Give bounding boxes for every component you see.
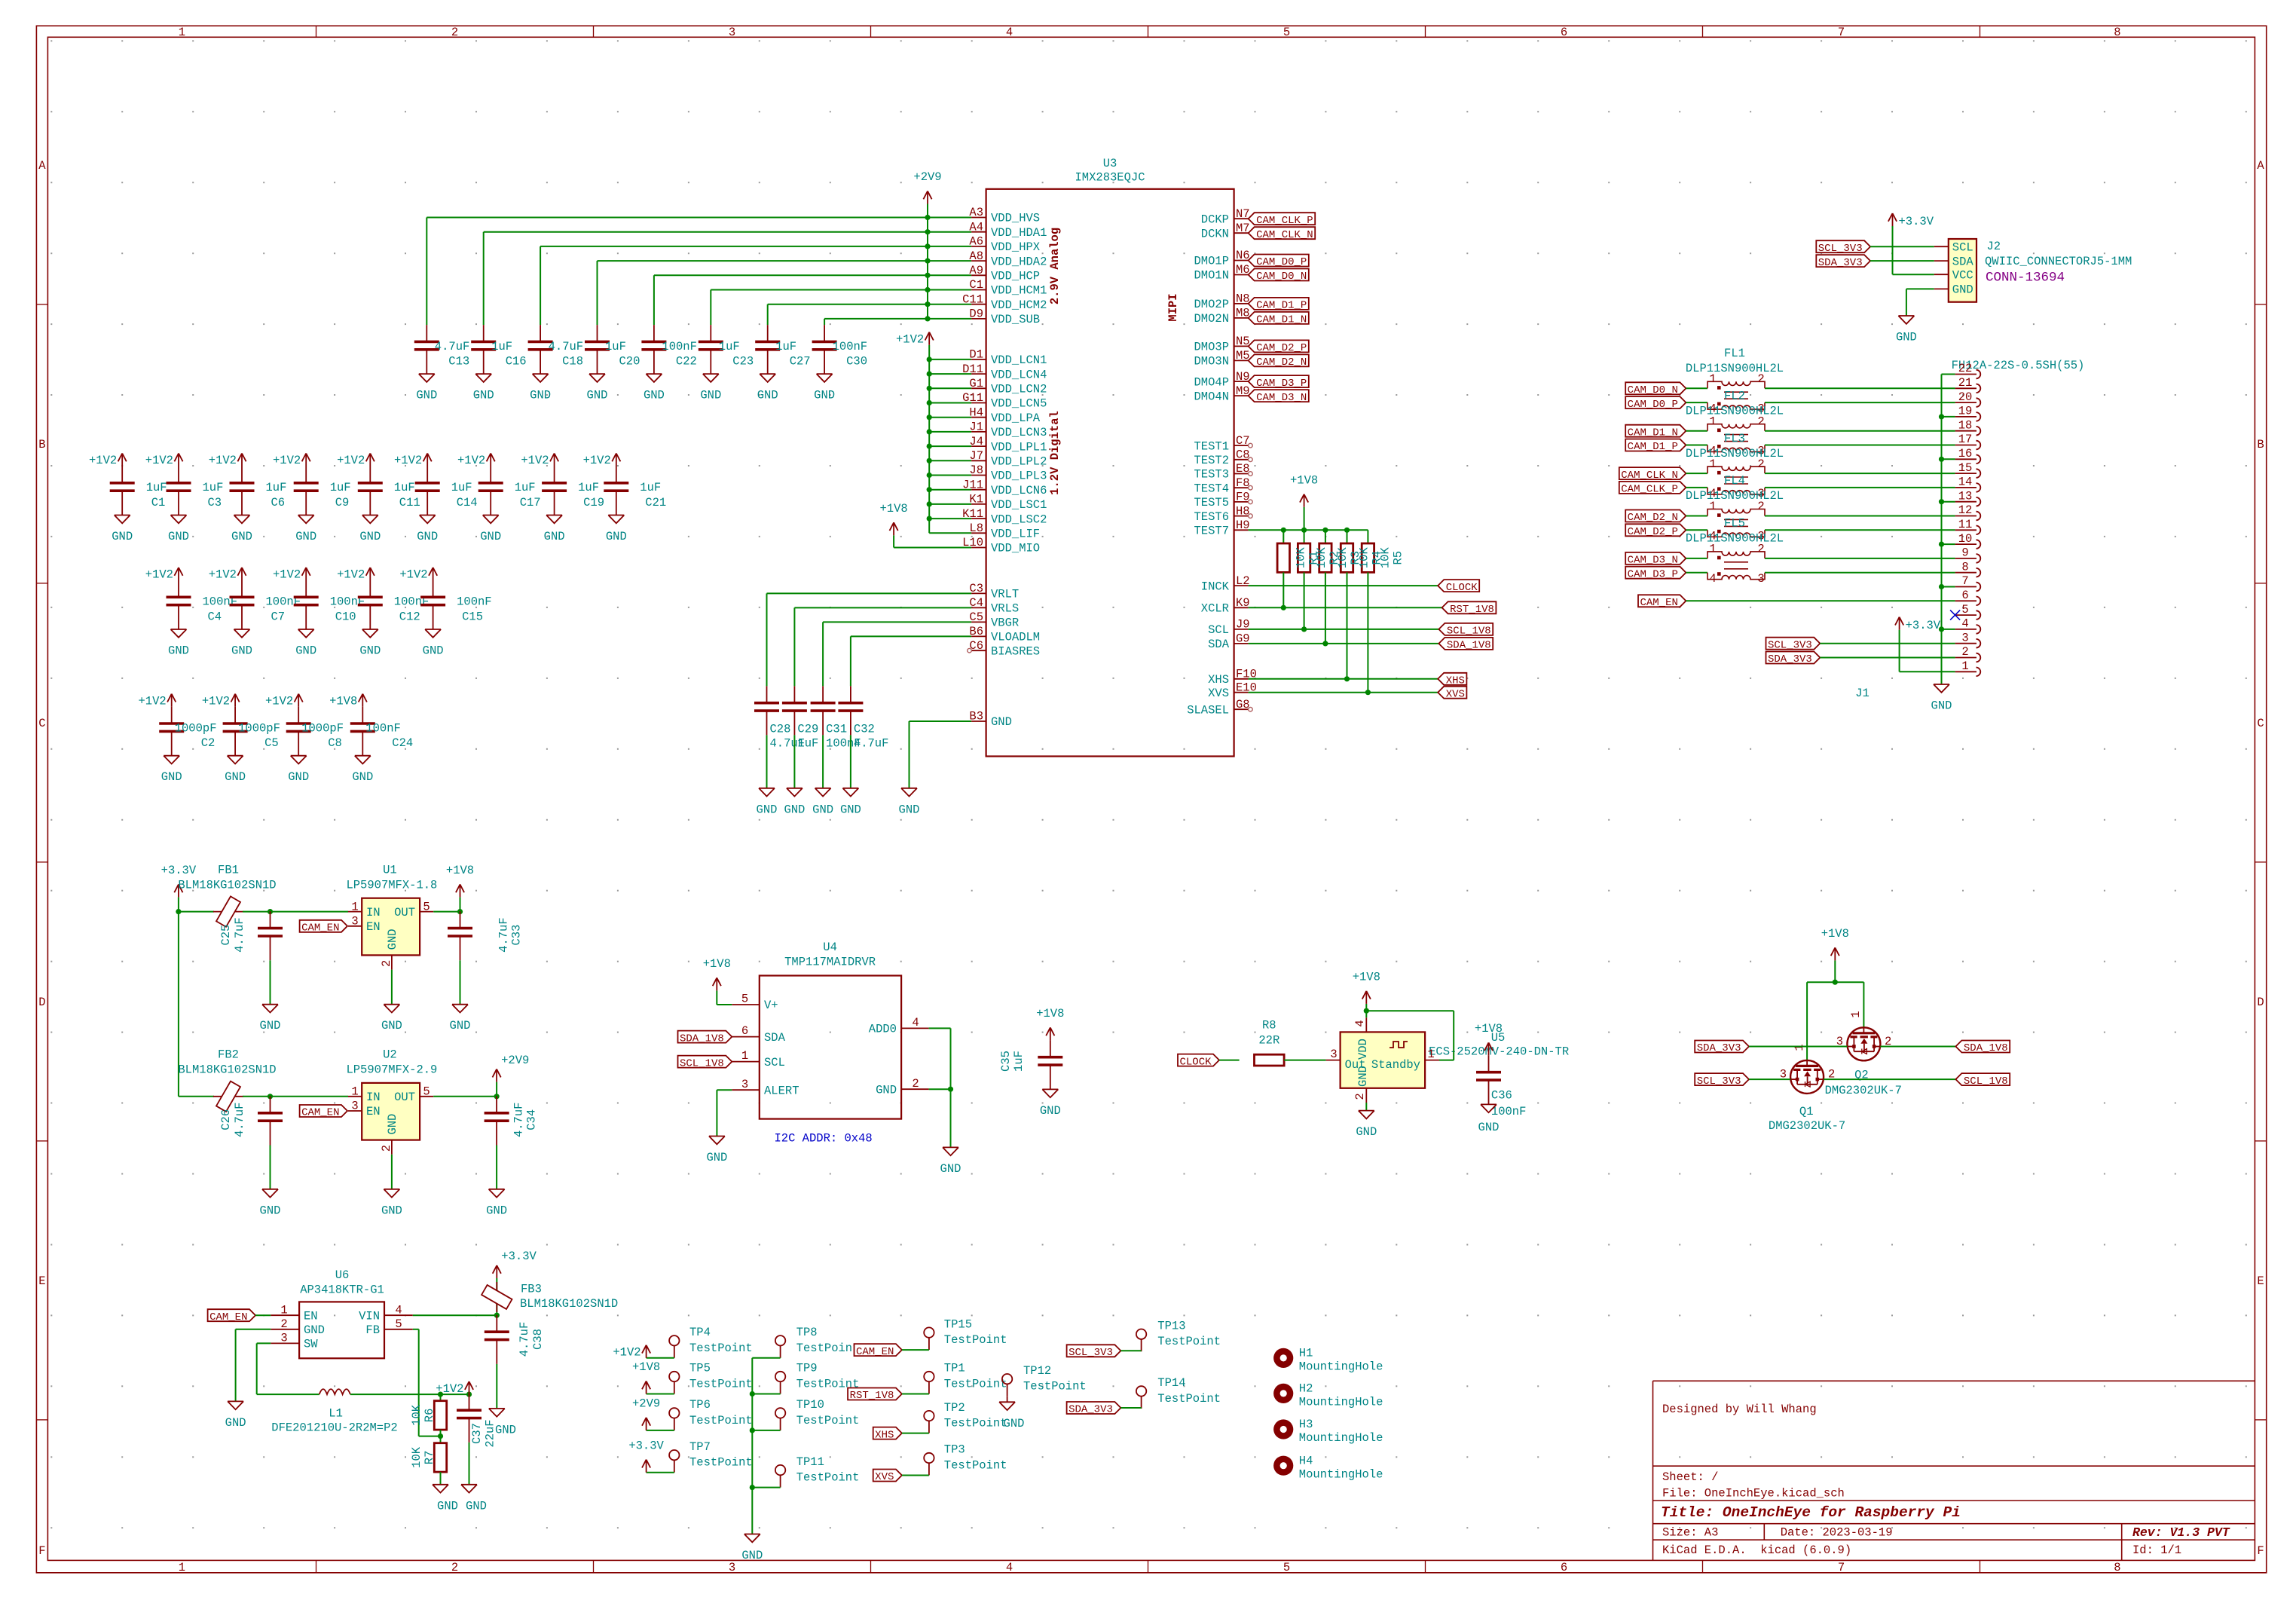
- resistor R8 22R: [1255, 1019, 1285, 1066]
- svg-text:B3: B3: [969, 710, 983, 724]
- svg-text:C5: C5: [969, 610, 983, 624]
- svg-text:100nF: 100nF: [1491, 1105, 1527, 1118]
- svg-text:6: 6: [1561, 26, 1567, 39]
- svg-text:C30: C30: [846, 354, 867, 368]
- wire U3 to C29: [794, 607, 971, 686]
- svg-text:1.2V Digital: 1.2V Digital: [1048, 411, 1062, 495]
- svg-text:+1V2: +1V2: [202, 694, 230, 708]
- test point TP7: [669, 1440, 753, 1473]
- svg-text:TestPoint: TestPoint: [1157, 1335, 1221, 1348]
- wire R2 to net: [1301, 572, 1307, 632]
- wire U3 GND B3 to ground: [910, 721, 972, 788]
- global label SDA_1V8 at U4: [678, 1031, 732, 1045]
- ground below C29: [784, 788, 805, 817]
- ground U4 GND: [940, 1147, 962, 1176]
- svg-text:GND: GND: [168, 644, 189, 658]
- svg-text:GND: GND: [161, 770, 182, 784]
- svg-text:VCC: VCC: [1952, 268, 1973, 282]
- svg-text:+1V2: +1V2: [337, 454, 365, 467]
- svg-text:4: 4: [1709, 572, 1716, 586]
- svg-text:10K: 10K: [1358, 547, 1371, 569]
- wire TP10 to gnd bus: [752, 1430, 780, 1431]
- wire C33 to ground: [460, 960, 461, 1004]
- global label CAM_EN at J1: [1638, 595, 1686, 609]
- svg-text:C33: C33: [510, 925, 524, 946]
- power +1V2 for C10: [273, 568, 310, 582]
- labels for resistor R5: [1379, 547, 1405, 569]
- ground TP bus: [741, 1534, 763, 1563]
- svg-text:H9: H9: [1236, 519, 1250, 532]
- svg-text:GND: GND: [544, 530, 565, 543]
- svg-text:F: F: [2257, 1544, 2264, 1558]
- test point TP14: [1136, 1376, 1221, 1409]
- ground below C21: [606, 516, 627, 544]
- U3 pin D9 VDD_SUB: [969, 307, 1040, 327]
- wire SCL_3V3 to TP13: [1120, 1350, 1141, 1351]
- svg-text:K1: K1: [969, 493, 983, 506]
- U6 pin 2 GND: [271, 1317, 325, 1337]
- svg-text:+3.3V: +3.3V: [501, 1250, 537, 1263]
- svg-text:SCL_1V8: SCL_1V8: [1447, 626, 1491, 638]
- svg-text:MountingHole: MountingHole: [1299, 1396, 1383, 1409]
- svg-text:D: D: [38, 996, 45, 1009]
- svg-text:Title: OneInchEye for Raspberr: Title: OneInchEye for Raspberry Pi: [1661, 1504, 1961, 1521]
- wire +3.3V to J1 pin 1: [1900, 630, 1955, 672]
- svg-text:+3.3V: +3.3V: [1906, 619, 1941, 632]
- svg-text:J1: J1: [969, 421, 983, 434]
- svg-text:FB2: FB2: [218, 1048, 239, 1062]
- ground below C31: [812, 788, 833, 817]
- ground below C22: [644, 374, 665, 402]
- svg-text:DLP11SN900HL2L: DLP11SN900HL2L: [1686, 362, 1784, 375]
- global label SDA_3V3 at TP14: [1067, 1402, 1121, 1416]
- U3 pin G1 VDD_LCN2: [969, 377, 1047, 396]
- svg-text:8: 8: [1961, 560, 1968, 574]
- global label CLOCK: [1438, 580, 1479, 594]
- power +1V2 for C17: [457, 454, 495, 468]
- U4 pin 5 V+: [732, 993, 778, 1013]
- svg-text:+1V2: +1V2: [273, 568, 301, 582]
- U3 pin J1 VDD_LCN3: [969, 421, 1047, 440]
- J1 pin 18: [1955, 418, 1981, 435]
- capacitor C13: [414, 325, 470, 374]
- svg-text:C11: C11: [399, 496, 420, 509]
- svg-text:SDA_1V8: SDA_1V8: [1447, 640, 1491, 652]
- svg-text:CAM_D0_N: CAM_D0_N: [1256, 271, 1307, 283]
- svg-text:VDD_HCP: VDD_HCP: [991, 270, 1040, 283]
- svg-text:L2: L2: [1236, 574, 1250, 588]
- svg-text:+1V2: +1V2: [337, 568, 365, 582]
- svg-text:GND: GND: [112, 530, 133, 543]
- power +1V8 at TP5: [632, 1360, 660, 1394]
- test point TP5: [669, 1362, 753, 1394]
- svg-text:MountingHole: MountingHole: [1299, 1431, 1383, 1445]
- svg-text:4: 4: [395, 1303, 402, 1317]
- svg-text:TEST1: TEST1: [1194, 439, 1229, 453]
- svg-text:GND: GND: [899, 803, 920, 816]
- power +1V2 for C19: [521, 454, 558, 468]
- U3 pin G9 SDA: [1208, 632, 1250, 652]
- ground below C33: [450, 1005, 471, 1033]
- svg-text:10K: 10K: [1315, 547, 1328, 569]
- svg-text:C13: C13: [448, 354, 469, 368]
- wire U5 Standby loop to VDD: [1364, 1008, 1454, 1060]
- svg-text:C23: C23: [732, 354, 754, 368]
- wire TP7 to power: [647, 1472, 674, 1473]
- power +1V2 for C3: [145, 454, 183, 468]
- ground below C38: [489, 1409, 516, 1437]
- global label CAM_D3_N: [1625, 552, 1686, 567]
- ground below C35: [1040, 1089, 1061, 1118]
- svg-text:GND: GND: [416, 389, 437, 402]
- wire C32 to ground: [850, 735, 851, 788]
- svg-text:C27: C27: [790, 354, 811, 368]
- no-connect J1 pin 5: [1950, 610, 1960, 620]
- svg-text:6: 6: [1961, 589, 1968, 602]
- U3 pin E10 XVS: [1208, 681, 1257, 700]
- svg-text:SCL_3V3: SCL_3V3: [1818, 243, 1863, 255]
- resistor R2 10K: [1298, 543, 1310, 572]
- wire FL3 to J1 pin 15: [1765, 473, 1955, 474]
- IC U2 LP5907MFX-2.9: [346, 1048, 437, 1155]
- svg-text:EN: EN: [304, 1309, 318, 1323]
- U3 pin C4 VRLS: [969, 596, 1019, 616]
- wire XHS: [1249, 678, 1438, 680]
- svg-text:GND: GND: [480, 530, 501, 543]
- svg-text:1uF: 1uF: [330, 481, 351, 494]
- svg-text:C8: C8: [1236, 448, 1250, 462]
- svg-text:C1: C1: [969, 278, 983, 292]
- U3 pin B6 VLOADLM: [969, 625, 1040, 644]
- U3 pin M5 DMO3N: [1194, 349, 1249, 369]
- svg-text:1: 1: [1427, 1048, 1434, 1061]
- power +1V2 for C12: [337, 568, 375, 582]
- svg-text:GND: GND: [225, 770, 246, 784]
- svg-text:3: 3: [1961, 631, 1968, 644]
- svg-text:DMO2P: DMO2P: [1194, 298, 1229, 311]
- capacitor C10: [294, 580, 365, 629]
- svg-text:C25: C25: [219, 925, 233, 946]
- J1 pin 12: [1955, 503, 1981, 520]
- wire C30 to U3: [824, 319, 971, 325]
- svg-text:VLOADLM: VLOADLM: [991, 631, 1040, 644]
- labels for resistor R1: [1295, 547, 1321, 569]
- svg-text:U1: U1: [383, 863, 397, 877]
- svg-text:+3.3V: +3.3V: [628, 1439, 664, 1452]
- svg-text:1: 1: [1849, 1011, 1863, 1017]
- svg-text:C7: C7: [1236, 434, 1250, 448]
- svg-text:B: B: [2257, 438, 2264, 451]
- svg-text:VRLS: VRLS: [991, 602, 1019, 616]
- svg-text:+1V2: +1V2: [145, 568, 173, 582]
- svg-text:VDD_HDA2: VDD_HDA2: [991, 255, 1047, 268]
- test point TP8: [775, 1326, 860, 1358]
- U4 pin 1 SCL: [732, 1049, 785, 1069]
- svg-text:B: B: [38, 438, 45, 451]
- svg-text:1: 1: [1961, 659, 1968, 673]
- wire CAM_EN to TP15: [902, 1349, 929, 1351]
- svg-text:RST_1V8: RST_1V8: [1450, 604, 1494, 616]
- svg-text:GND: GND: [1952, 283, 1973, 297]
- svg-text:5: 5: [423, 900, 430, 913]
- svg-text:DMO1P: DMO1P: [1194, 255, 1229, 268]
- filter FL3 DLP11SN900HL2L: [1686, 432, 1784, 500]
- svg-text:TestPoint: TestPoint: [944, 1333, 1007, 1347]
- svg-text:5: 5: [1961, 603, 1968, 616]
- svg-text:TEST3: TEST3: [1194, 468, 1229, 482]
- svg-text:C: C: [38, 717, 45, 730]
- svg-text:VDD_HCM2: VDD_HCM2: [991, 298, 1047, 312]
- global label CAM_D0_P: [1249, 255, 1309, 269]
- wire C13 to U3: [426, 218, 971, 326]
- resistor R7 10K: [410, 1443, 447, 1472]
- global label CAM_D0_N: [1249, 269, 1309, 283]
- global label CAM_D1_N: [1249, 312, 1309, 326]
- global label CAM_CLK_P: [1249, 213, 1316, 227]
- power +1V8 at C36: [1475, 1022, 1503, 1055]
- svg-text:D1: D1: [969, 348, 983, 362]
- svg-text:GND: GND: [437, 1499, 458, 1513]
- svg-text:1uF: 1uF: [266, 481, 287, 494]
- J2 pin GND: [1934, 283, 1973, 297]
- capacitor C26 4.7uF: [219, 1097, 283, 1146]
- labels for resistor R2: [1315, 547, 1341, 569]
- wire CAM_EN to J1 pin 6: [1686, 600, 1955, 601]
- wire FL1 to J1 pin 20: [1765, 402, 1955, 403]
- svg-text:H4: H4: [1299, 1454, 1313, 1467]
- global label CLOCK at R8: [1178, 1054, 1219, 1069]
- svg-text:10K: 10K: [1336, 547, 1350, 569]
- wire C23 to U3: [711, 290, 971, 326]
- svg-text:TP8: TP8: [796, 1326, 818, 1339]
- svg-text:GND: GND: [304, 1323, 325, 1337]
- wire U1 GND to ground: [391, 970, 393, 1005]
- svg-text:GND: GND: [700, 389, 721, 402]
- svg-text:FB3: FB3: [521, 1283, 542, 1296]
- svg-text:VDD_HDA1: VDD_HDA1: [991, 226, 1047, 240]
- wire R7 to ground: [440, 1472, 442, 1485]
- ground below C10: [295, 629, 316, 658]
- svg-text:+3.3V: +3.3V: [1899, 215, 1934, 228]
- svg-text:VDD_LPL2: VDD_LPL2: [991, 455, 1047, 469]
- power +1V8 pullup rail: [1304, 507, 1305, 531]
- ground below C8: [288, 756, 309, 784]
- svg-text:J9: J9: [1236, 618, 1250, 632]
- svg-text:XVS: XVS: [1208, 687, 1229, 700]
- svg-text:SCL: SCL: [764, 1056, 785, 1069]
- svg-text:GND: GND: [417, 530, 438, 543]
- power +3.3V at J2: [1888, 213, 1934, 228]
- svg-text:TestPoint: TestPoint: [796, 1471, 860, 1485]
- svg-text:SDA_3V3: SDA_3V3: [1697, 1042, 1741, 1054]
- capacitor C22: [641, 325, 697, 374]
- svg-text:LP5907MFX-2.9: LP5907MFX-2.9: [346, 1063, 437, 1077]
- svg-text:22: 22: [1958, 362, 1973, 375]
- svg-text:XHS: XHS: [1208, 673, 1229, 687]
- svg-text:F8: F8: [1236, 476, 1250, 490]
- svg-text:+1V2: +1V2: [265, 694, 293, 708]
- svg-text:2: 2: [912, 1077, 919, 1091]
- capacitor C5: [223, 707, 280, 756]
- svg-text:TEST5: TEST5: [1194, 496, 1229, 509]
- U3 pin D11 VDD_LCN4: [962, 363, 1047, 382]
- svg-text:C5: C5: [264, 736, 279, 750]
- svg-text:TestPoint: TestPoint: [944, 1417, 1007, 1430]
- global label SCL_3V3 at TP13: [1067, 1345, 1121, 1359]
- svg-text:C37: C37: [470, 1423, 484, 1444]
- wire XVS: [1249, 692, 1438, 693]
- U3 pin A9 VDD_HCP: [969, 264, 1040, 283]
- svg-text:1uF: 1uF: [797, 737, 818, 751]
- svg-text:R7: R7: [423, 1451, 436, 1465]
- power +1V8 at C35: [1036, 1007, 1064, 1040]
- svg-text:DLP11SN900HL2L: DLP11SN900HL2L: [1686, 404, 1784, 418]
- J1 pin 13: [1955, 489, 1981, 506]
- svg-text:XCLR: XCLR: [1201, 602, 1229, 616]
- svg-text:SW: SW: [304, 1338, 318, 1351]
- wire CAM_D1_P to FL2: [1686, 445, 1707, 446]
- svg-text:DLP11SN900HL2L: DLP11SN900HL2L: [1686, 489, 1784, 503]
- svg-text:SDA_1V8: SDA_1V8: [1964, 1042, 2008, 1054]
- global label CAM_D3_P: [1625, 567, 1686, 581]
- capacitor C9: [294, 467, 351, 516]
- capacitor C24: [350, 707, 413, 756]
- svg-text:2.9V Analog: 2.9V Analog: [1048, 228, 1062, 304]
- svg-text:GND: GND: [359, 644, 381, 658]
- svg-text:SDA_1V8: SDA_1V8: [680, 1033, 724, 1045]
- global label CAM_D1_P: [1625, 439, 1686, 454]
- svg-text:L8: L8: [969, 522, 983, 535]
- svg-text:GND: GND: [381, 1019, 402, 1033]
- global label CAM_D3_P: [1249, 375, 1309, 390]
- global label XHS: [1438, 673, 1466, 687]
- svg-text:C26: C26: [219, 1109, 233, 1130]
- svg-text:MountingHole: MountingHole: [1299, 1360, 1383, 1374]
- svg-text:B6: B6: [969, 625, 983, 638]
- U3 pin E8 TEST3: [1194, 462, 1252, 482]
- power +1V8 for C24: [329, 694, 367, 708]
- svg-text:IN: IN: [366, 1091, 381, 1104]
- wire SCL_3V3 to J1 pin 3: [1820, 643, 1955, 644]
- svg-text:C7: C7: [271, 610, 286, 623]
- svg-text:2: 2: [280, 1317, 287, 1331]
- svg-text:2: 2: [1353, 1093, 1367, 1100]
- svg-text:R6: R6: [423, 1409, 436, 1423]
- wire C38 to ground: [496, 1364, 497, 1409]
- svg-text:VDD_MIO: VDD_MIO: [991, 542, 1040, 555]
- svg-text:VDD_LCN1: VDD_LCN1: [991, 353, 1047, 367]
- svg-text:G1: G1: [969, 377, 983, 390]
- J1 pin 9: [1955, 546, 1981, 563]
- U3 pin C7 TEST1: [1194, 434, 1252, 454]
- wire +3.3V rail to U1 and U2: [179, 912, 214, 1097]
- svg-text:BLM18KG102SN1D: BLM18KG102SN1D: [520, 1297, 618, 1311]
- svg-text:15: 15: [1958, 461, 1973, 475]
- svg-text:CAM_EN: CAM_EN: [209, 1311, 247, 1323]
- svg-text:VDD_HCM1: VDD_HCM1: [991, 284, 1047, 298]
- test point TP15: [924, 1317, 1007, 1350]
- wire FL4 to J1 pin 12: [1765, 516, 1955, 517]
- test point TP6: [669, 1398, 753, 1430]
- U3 pin N5 DMO3P: [1194, 335, 1249, 354]
- svg-text:J4: J4: [969, 435, 983, 448]
- svg-text:G8: G8: [1236, 698, 1250, 711]
- ground below C7: [231, 629, 252, 658]
- svg-text:3: 3: [280, 1332, 287, 1345]
- wire C28 to ground: [766, 735, 768, 788]
- power +1V8 at U5: [1365, 1004, 1367, 1011]
- svg-text:TestPoint: TestPoint: [796, 1342, 860, 1355]
- svg-text:+1V2: +1V2: [613, 1346, 640, 1360]
- svg-text:1uF: 1uF: [640, 481, 661, 494]
- global label SCL_1V8 at U4: [678, 1056, 732, 1070]
- U6 pin 3 SW: [271, 1332, 318, 1351]
- svg-text:TP15: TP15: [944, 1317, 972, 1331]
- svg-text:BIASRES: BIASRES: [991, 644, 1040, 658]
- ground below C25: [260, 1005, 281, 1033]
- svg-text:3: 3: [741, 1078, 748, 1091]
- svg-text:GND: GND: [381, 1204, 402, 1217]
- svg-text:6: 6: [1561, 1561, 1567, 1574]
- svg-text:5: 5: [1283, 1561, 1290, 1574]
- svg-text:VDD_SUB: VDD_SUB: [991, 313, 1040, 326]
- svg-text:J8: J8: [969, 463, 983, 477]
- wire bead to U2 IN: [243, 1094, 348, 1099]
- svg-text:VDD_LPL3: VDD_LPL3: [991, 470, 1047, 483]
- svg-text:TP9: TP9: [796, 1362, 818, 1375]
- svg-text:EN: EN: [366, 920, 381, 934]
- svg-text:CAM_D0_P: CAM_D0_P: [1628, 399, 1678, 411]
- wire +1V8 to U4 V+: [717, 990, 732, 1005]
- svg-text:TestPoint: TestPoint: [689, 1414, 753, 1427]
- wire SDA_3V3 to J1 pin 2: [1820, 657, 1955, 659]
- svg-text:1: 1: [741, 1049, 748, 1063]
- svg-text:4.7uF: 4.7uF: [854, 737, 889, 751]
- global label XVS: [1438, 687, 1466, 701]
- svg-text:5: 5: [423, 1085, 430, 1099]
- wire U1 OUT: [433, 909, 463, 914]
- wire CAM_EN to U6 EN: [255, 1314, 271, 1316]
- U4 pin 3 ALERT: [732, 1078, 799, 1098]
- svg-text:GND: GND: [812, 803, 833, 816]
- svg-text:1000pF: 1000pF: [301, 721, 344, 735]
- svg-text:C4: C4: [969, 596, 983, 610]
- svg-text:FL2: FL2: [1724, 389, 1745, 402]
- J2 pin SCL: [1934, 240, 1973, 254]
- IC U5 ECS-2520MV oscillator: [1326, 1017, 1570, 1103]
- capacitor C28: [754, 686, 805, 750]
- svg-text:D9: D9: [969, 307, 983, 321]
- svg-text:1: 1: [1793, 1044, 1806, 1051]
- svg-text:4.7uF: 4.7uF: [518, 1322, 531, 1357]
- U3 pin J11 VDD_LCN6: [962, 478, 1047, 497]
- U3 pin F8 TEST4: [1194, 476, 1252, 496]
- capacitor C4: [167, 580, 238, 629]
- svg-text:SCL: SCL: [1208, 623, 1229, 637]
- svg-text:VDD_HPX: VDD_HPX: [991, 240, 1041, 254]
- svg-text:1uF: 1uF: [515, 481, 536, 494]
- power +3.3V main input: [176, 897, 181, 914]
- svg-text:TestPoint: TestPoint: [796, 1414, 860, 1427]
- svg-text:C29: C29: [797, 723, 818, 736]
- U3 pin A8 VDD_HDA2: [969, 249, 1047, 269]
- capacitor C17: [478, 467, 541, 516]
- svg-text:CAM_D1_N: CAM_D1_N: [1628, 427, 1678, 439]
- svg-text:3: 3: [729, 1561, 735, 1574]
- power +2V9: [913, 170, 941, 203]
- svg-text:16: 16: [1958, 447, 1973, 460]
- wire R4 to net: [1344, 572, 1350, 681]
